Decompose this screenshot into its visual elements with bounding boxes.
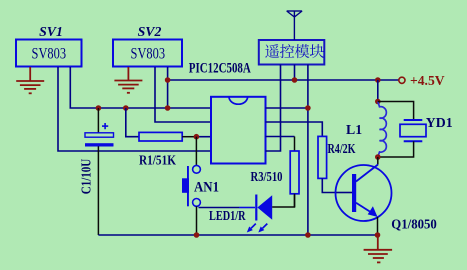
buzzer YD1 bbox=[378, 102, 426, 158]
svg-text:AN1: AN1 bbox=[194, 180, 219, 196]
junction pin8 bbox=[305, 105, 311, 111]
svg-text:Q1/8050: Q1/8050 bbox=[391, 216, 437, 231]
remote module box 遥控模块 bbox=[259, 40, 325, 65]
ground (SV2) bbox=[114, 67, 142, 93]
wire rail to L1/YD1 node bbox=[377, 80, 379, 102]
ground rail wire (bottom) bbox=[98, 234, 377, 236]
resistor R3 bbox=[266, 137, 300, 208]
IC U1 PIC12C508A body bbox=[211, 97, 266, 164]
battery box SV2 bbox=[113, 40, 182, 67]
junction rail-module bbox=[292, 77, 298, 83]
transistor Q1 bbox=[336, 157, 392, 235]
svg-text:SV803: SV803 bbox=[131, 45, 166, 62]
svg-text:SV1: SV1 bbox=[39, 24, 63, 39]
wire SV1 right pin to VDD bus bbox=[70, 67, 211, 108]
push button AN1 bbox=[182, 137, 200, 235]
svg-text:SV2: SV2 bbox=[138, 24, 162, 39]
wire module left pin to IC pin5-row bbox=[266, 65, 281, 152]
wire SV2 pin to IC pin2-row bbox=[155, 67, 211, 122]
wire IC pin4-row to AN1 junction bbox=[196, 136, 211, 138]
capacitor C1 bbox=[85, 108, 114, 235]
power terminal +4.5V bbox=[399, 73, 445, 88]
ground (Q1 emitter) bbox=[364, 235, 393, 262]
ground (SV1) bbox=[16, 67, 44, 93]
junction bus-SV2 link bbox=[165, 105, 171, 111]
antenna bbox=[287, 11, 302, 40]
svg-text:LED1/R: LED1/R bbox=[209, 208, 246, 223]
junction rail-emitter bbox=[375, 232, 381, 238]
LED LED1 bbox=[199, 194, 295, 233]
svg-text:R4/2K: R4/2K bbox=[328, 141, 356, 156]
svg-text:YD1: YD1 bbox=[426, 115, 453, 130]
junction rail-module bbox=[305, 232, 311, 238]
junction L1 top node bbox=[375, 99, 381, 105]
svg-text:+4.5V: +4.5V bbox=[410, 73, 445, 88]
battery box SV1 bbox=[16, 40, 82, 67]
label 遥控模块 (drawn glyphs) bbox=[265, 44, 324, 58]
svg-text:PIC12C508A: PIC12C508A bbox=[189, 61, 252, 77]
svg-text:R1/51K: R1/51K bbox=[139, 152, 176, 167]
svg-text:L1: L1 bbox=[346, 122, 362, 137]
svg-text:R3/510: R3/510 bbox=[251, 169, 283, 184]
wire SV2 right pin down through +4.5V rail to VDD bus bbox=[167, 67, 169, 108]
junction rail start bbox=[165, 77, 171, 83]
wire +4.5V rail bbox=[168, 79, 399, 81]
junction R1/AN1/IC bbox=[194, 134, 200, 140]
junction rail-AN1 bbox=[194, 232, 200, 238]
wire module center pin to +4.5V rail bbox=[294, 65, 296, 81]
resistor R1 bbox=[126, 108, 197, 141]
junction bus-R1 bbox=[123, 105, 129, 111]
wire IC pin8-row to module right pin bbox=[266, 107, 308, 109]
junction L1 bottom node bbox=[375, 154, 381, 160]
junction rail-L1 top bbox=[375, 77, 381, 83]
resistor R4 bbox=[266, 122, 337, 193]
junction bus-C1 bbox=[96, 105, 102, 111]
svg-text:C1/10U: C1/10U bbox=[79, 159, 94, 195]
svg-text:SV803: SV803 bbox=[32, 45, 67, 62]
wire module right pin down to ground rail bbox=[307, 65, 309, 236]
inductor L1 bbox=[378, 102, 387, 158]
wire SV1 left pin to IC pin4-row (node to GP3) bbox=[58, 67, 211, 151]
wire base from R4 bbox=[336, 192, 352, 194]
